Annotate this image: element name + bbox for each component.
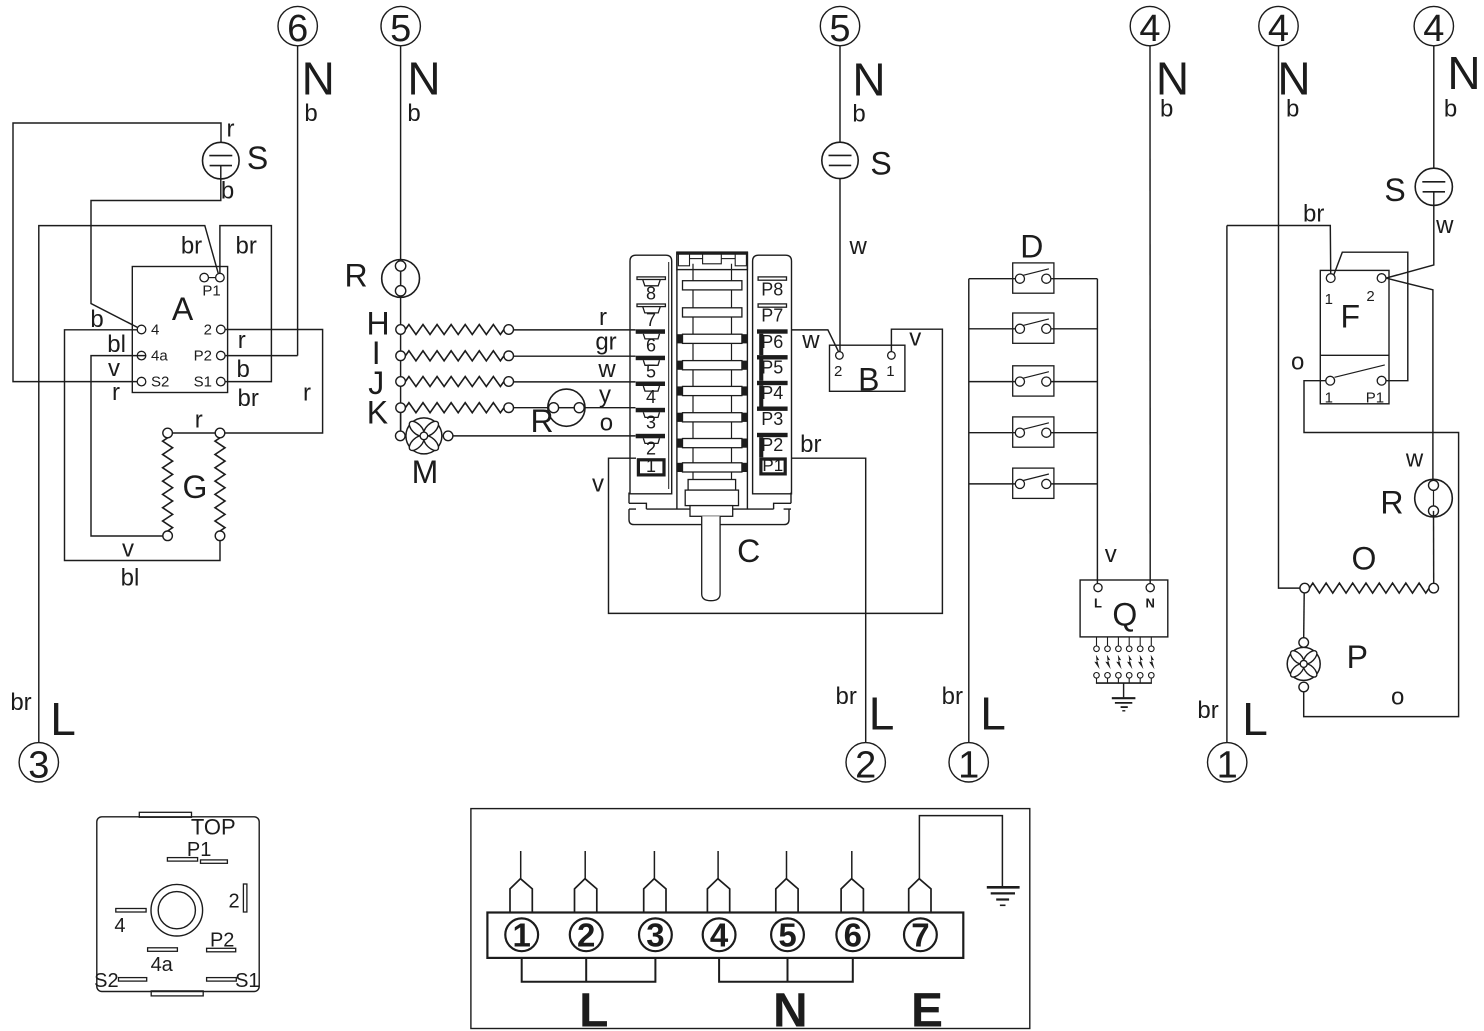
spade connector 7 xyxy=(909,879,931,913)
wire br: A pin S1 right, up and to P1 xyxy=(220,226,272,382)
svg-text:4: 4 xyxy=(646,387,656,407)
svg-text:b: b xyxy=(1286,96,1299,123)
switch C cam bar (engaged row) xyxy=(683,361,742,370)
svg-text:5: 5 xyxy=(646,361,656,381)
lamp S (right) xyxy=(1415,168,1452,205)
svg-text:4a: 4a xyxy=(151,954,174,976)
pin 4a of A xyxy=(137,351,146,360)
wire r: H to switch C contact 6 xyxy=(514,329,636,331)
svg-text:r: r xyxy=(112,379,120,406)
svg-text:L: L xyxy=(1242,693,1268,745)
wire b/w: node 5 through lamp S to B pin 2 xyxy=(839,46,841,156)
wire: switch to v bus xyxy=(1051,381,1098,383)
svg-text:4: 4 xyxy=(710,916,729,953)
svg-text:v: v xyxy=(592,471,604,498)
svg-text:P4: P4 xyxy=(761,383,783,403)
svg-text:O: O xyxy=(1351,540,1376,576)
lamp R (right) xyxy=(1415,479,1453,517)
svg-text:Q: Q xyxy=(1112,597,1137,633)
wire: F pin 1 loop to F pin P1 xyxy=(1334,252,1408,381)
svg-text:w: w xyxy=(849,233,868,260)
slot P1 left xyxy=(167,858,197,862)
svg-text:R: R xyxy=(1380,484,1403,520)
wire r: A pin S2 left and up to lamp S xyxy=(13,123,221,382)
clock/timer A (box) xyxy=(132,267,227,393)
svg-text:br: br xyxy=(800,431,821,458)
svg-text:5: 5 xyxy=(778,916,796,953)
svg-text:b: b xyxy=(852,101,865,128)
svg-text:P1: P1 xyxy=(1366,389,1384,406)
hotplate switch (bank D) xyxy=(1013,263,1054,293)
wire v: A pin 4a left, down to G left leg xyxy=(91,356,163,536)
slot 2 xyxy=(243,884,247,912)
svg-text:y: y xyxy=(599,382,611,409)
wire bl: A pin 4 left, down to grill element G right leg xyxy=(65,330,221,561)
pin N of Q xyxy=(1146,584,1154,592)
svg-text:r: r xyxy=(599,304,607,331)
fan motor M xyxy=(400,413,402,432)
svg-text:br: br xyxy=(10,689,31,716)
node 4 (supply terminal) xyxy=(1130,6,1169,45)
switch C - cam shaft column xyxy=(676,252,678,508)
timer connector rear view (TOP) xyxy=(97,817,259,992)
svg-text:v: v xyxy=(909,325,921,352)
svg-text:P7: P7 xyxy=(761,306,783,326)
svg-text:N: N xyxy=(773,985,808,1031)
wire o: F lower pin 1 loop to fan P bottom xyxy=(1304,381,1459,717)
node 1 (supply terminal) xyxy=(949,743,988,782)
svg-text:N: N xyxy=(852,54,885,106)
slot 4a xyxy=(148,948,178,952)
switch C cam bar row 8 xyxy=(683,281,742,290)
svg-text:b: b xyxy=(237,356,250,383)
svg-text:v: v xyxy=(122,536,134,563)
svg-text:1: 1 xyxy=(1325,291,1333,308)
wire w: switch C pin P6 to B pin 2 xyxy=(792,330,839,352)
slot P1 right xyxy=(201,860,228,863)
svg-text:L: L xyxy=(50,693,76,745)
wire: switch to v bus xyxy=(1051,483,1098,485)
bridge L: terminals 1-2-3 xyxy=(522,958,656,982)
svg-text:7: 7 xyxy=(646,310,656,330)
switch C shaft stem xyxy=(702,516,720,600)
svg-text:gr: gr xyxy=(595,329,616,356)
svg-text:E: E xyxy=(911,985,943,1031)
wire w: lamp S down to F pin 2 xyxy=(1386,192,1434,278)
lamp S (left signal lamp) xyxy=(203,142,240,179)
grill element G (two resistors) xyxy=(172,432,215,434)
svg-text:br: br xyxy=(836,683,857,710)
svg-text:br: br xyxy=(181,233,202,260)
wire y: K through lamp R to switch C contact 3 xyxy=(514,407,549,409)
svg-text:4a: 4a xyxy=(151,348,168,365)
pin P1 of A (two linked terminals) xyxy=(209,277,216,279)
node 2 (supply terminal) xyxy=(846,743,885,782)
svg-text:R: R xyxy=(344,257,367,293)
svg-text:TOP: TOP xyxy=(191,815,236,840)
pin 2 of F xyxy=(1377,274,1386,283)
svg-text:D: D xyxy=(1020,228,1043,264)
pin S1 of A xyxy=(217,377,226,386)
svg-text:L: L xyxy=(980,688,1006,740)
wire b: lamp S down-left to A pin 4 xyxy=(91,166,221,328)
switch C contact 7 (open) xyxy=(637,304,665,307)
wire w: F pin 2 down to lamp R xyxy=(1386,278,1433,480)
pin P2 of A xyxy=(217,351,226,360)
svg-text:P2: P2 xyxy=(194,348,212,365)
spade connector 3 xyxy=(653,851,655,879)
svg-text:L: L xyxy=(869,688,895,740)
node 4b (supply terminal) xyxy=(1259,6,1298,45)
svg-text:6: 6 xyxy=(646,336,656,356)
switch C cam bar (engaged row) xyxy=(683,413,742,422)
svg-text:w: w xyxy=(1405,446,1424,473)
oven selector switch C - left pin column xyxy=(630,255,672,494)
svg-text:r: r xyxy=(227,116,235,143)
svg-text:1: 1 xyxy=(646,456,656,476)
svg-text:2: 2 xyxy=(229,891,240,913)
svg-text:4: 4 xyxy=(1139,8,1160,50)
wire b: node 4 down to lamp S xyxy=(1433,46,1435,182)
svg-text:L: L xyxy=(1094,596,1102,611)
wire v: switch bank to Q terminal L xyxy=(1096,279,1098,584)
wire v: switch C pin 1 around block to B pin 1 xyxy=(609,329,943,613)
svg-text:S2: S2 xyxy=(94,970,118,992)
wire br: node 3 up and diagonal to A pin P1 xyxy=(39,226,219,743)
svg-text:S2: S2 xyxy=(151,374,169,391)
wire gr: I to switch C contact 5 xyxy=(514,355,636,357)
slot S2 xyxy=(119,978,147,982)
wire w: J to switch C contact 4 xyxy=(514,381,636,383)
svg-text:6: 6 xyxy=(844,916,862,953)
pin 1 of F xyxy=(1326,274,1335,283)
pin 4 of A xyxy=(137,325,146,334)
svg-text:br: br xyxy=(238,385,259,412)
spade connector 1 xyxy=(520,851,522,879)
svg-text:o: o xyxy=(1291,349,1304,376)
terminal 4 xyxy=(703,918,736,951)
switch C pin 1 (boxed) xyxy=(638,460,664,475)
svg-text:P3: P3 xyxy=(761,409,783,429)
oven lamp R xyxy=(382,260,420,298)
svg-text:v: v xyxy=(108,355,120,382)
switch C pin P7 xyxy=(758,304,786,307)
switch C pins P6/P5/P4 (engaged, black frames) xyxy=(757,329,788,333)
svg-text:2: 2 xyxy=(577,916,595,953)
svg-text:1: 1 xyxy=(886,363,894,380)
heating element K xyxy=(396,403,406,413)
heating element I xyxy=(396,351,406,361)
Q output terminals with surge arrows xyxy=(1096,637,1098,646)
switch lever in F xyxy=(1335,365,1385,377)
wire br: switch C pin P1 to node 2 xyxy=(792,458,866,742)
spade connector 4 xyxy=(717,851,719,879)
svg-text:2: 2 xyxy=(834,363,842,380)
switch C cam bar (engaged row) xyxy=(683,334,742,343)
switch C contact 6 (engaged) xyxy=(636,329,665,334)
wire b: node 5 down through lamp R to fan M xyxy=(400,46,402,261)
wire: switch to L bus xyxy=(969,483,1016,485)
hotplate switch (bank D) xyxy=(1013,417,1054,447)
svg-text:r: r xyxy=(303,380,311,407)
svg-text:2: 2 xyxy=(1366,288,1374,305)
svg-text:K: K xyxy=(367,395,388,431)
wire: terminal 7 to earth xyxy=(919,816,1002,886)
ground (earth symbol under Q) xyxy=(1112,697,1136,699)
svg-text:br: br xyxy=(1303,201,1324,228)
switch C contact 2 (engaged) xyxy=(636,434,665,439)
node 3 (supply terminal) xyxy=(19,743,58,782)
spade connector 2 xyxy=(584,851,586,879)
svg-text:S1: S1 xyxy=(194,374,212,391)
svg-text:P8: P8 xyxy=(761,280,783,300)
switch C pin P8 xyxy=(758,277,786,280)
wire: switch to v bus xyxy=(1051,432,1098,434)
heating element O xyxy=(1300,583,1310,593)
terminal strip xyxy=(487,913,963,958)
svg-text:G: G xyxy=(182,469,207,505)
switch C body flange xyxy=(628,493,630,504)
svg-text:1: 1 xyxy=(513,916,531,953)
terminal 7 xyxy=(904,918,937,951)
svg-text:3: 3 xyxy=(646,413,656,433)
switch C cam bar (engaged row) xyxy=(683,386,742,395)
switch C pin P1 (boxed) xyxy=(761,459,785,474)
svg-text:b: b xyxy=(304,100,317,127)
svg-text:B: B xyxy=(858,361,879,397)
switch C cam bar (engaged row) xyxy=(683,439,742,448)
pin 2 of A xyxy=(217,325,226,334)
slot P2 xyxy=(207,948,236,952)
pin L of Q xyxy=(1094,584,1102,592)
svg-text:1: 1 xyxy=(1217,744,1238,786)
interference suppressor Q (box) xyxy=(1080,580,1168,637)
svg-text:bl: bl xyxy=(107,331,126,358)
svg-text:P: P xyxy=(1347,639,1368,675)
svg-text:4: 4 xyxy=(1268,8,1289,50)
svg-text:bl: bl xyxy=(121,565,140,592)
svg-text:F: F xyxy=(1341,298,1361,334)
svg-text:br: br xyxy=(942,683,963,710)
svg-text:P1: P1 xyxy=(202,283,220,300)
svg-text:P2: P2 xyxy=(761,435,783,455)
wire: switch to L bus xyxy=(969,278,1016,280)
switch C contact 5 (engaged) xyxy=(636,356,665,361)
lamp S (middle) xyxy=(822,142,858,178)
svg-text:6: 6 xyxy=(287,8,308,50)
wire br: down to node 1b xyxy=(1226,226,1228,743)
switch C cam bar row 7 xyxy=(683,308,742,317)
pin 2 of B xyxy=(836,352,844,360)
wire r: A pin 2 right and down to G top xyxy=(225,330,323,434)
wire: switch to L bus xyxy=(969,432,1016,434)
node 1b (supply terminal) xyxy=(1208,743,1247,782)
svg-text:br: br xyxy=(1197,697,1218,724)
fan motor P xyxy=(1303,593,1306,638)
wire b: node 4 down to Q terminal N xyxy=(1149,46,1151,584)
node 5 (supply terminal) xyxy=(381,6,420,45)
heating element J xyxy=(396,377,406,387)
node 5b (supply terminal) xyxy=(820,6,859,45)
bridge N: terminals 4-5-6 xyxy=(719,958,853,982)
svg-text:S: S xyxy=(247,140,268,176)
svg-text:b: b xyxy=(90,306,103,333)
svg-text:1: 1 xyxy=(1325,389,1333,406)
wire: switch to L bus xyxy=(969,328,1016,330)
svg-text:br: br xyxy=(236,233,257,260)
wire: switch to v bus xyxy=(1051,278,1098,280)
spade connector 5 xyxy=(786,851,788,879)
svg-text:5: 5 xyxy=(829,8,850,50)
svg-text:N: N xyxy=(407,52,440,104)
svg-text:w: w xyxy=(1435,212,1454,239)
wire br: from L line to F pin 1 xyxy=(1227,226,1331,274)
svg-text:4: 4 xyxy=(151,322,159,339)
mains terminal block (outer box) xyxy=(471,809,1030,1029)
wire b: node 6 down to A pin P2 xyxy=(297,46,299,356)
switch C contact 4 (engaged) xyxy=(636,382,665,387)
svg-text:r: r xyxy=(238,327,246,354)
thermostat F (box with switch) xyxy=(1320,270,1389,403)
svg-text:M: M xyxy=(412,454,439,490)
svg-text:v: v xyxy=(1105,541,1117,568)
terminal 1 xyxy=(505,918,538,951)
wire: switch to v bus xyxy=(1051,328,1098,330)
pin S2 of A xyxy=(137,377,146,386)
wire o: M to switch C contact 2 xyxy=(453,435,636,437)
wire: switch to L bus xyxy=(969,381,1016,383)
switch C - right pin column xyxy=(753,255,792,494)
svg-text:P5: P5 xyxy=(761,358,783,378)
svg-text:8: 8 xyxy=(646,284,656,304)
svg-text:S: S xyxy=(1384,172,1405,208)
svg-text:R: R xyxy=(530,403,553,439)
svg-text:2: 2 xyxy=(204,322,212,339)
ground (earth symbol at terminal block) xyxy=(987,886,1020,889)
svg-text:o: o xyxy=(600,410,613,437)
terminal 5 xyxy=(771,918,804,951)
svg-text:b: b xyxy=(1160,96,1173,123)
svg-text:2: 2 xyxy=(855,744,876,786)
switch C shaft lower stack xyxy=(688,480,736,491)
svg-text:A: A xyxy=(172,291,194,327)
wire: Q terminals common to earth xyxy=(1096,682,1152,684)
svg-text:1: 1 xyxy=(958,744,979,786)
svg-text:N: N xyxy=(302,52,335,104)
svg-text:7: 7 xyxy=(911,916,929,953)
svg-text:4: 4 xyxy=(114,915,125,937)
thermostat B (box) xyxy=(830,345,905,391)
pin 1 of B xyxy=(888,352,896,360)
switch C pin P2 (engaged) xyxy=(757,433,788,437)
svg-text:4: 4 xyxy=(1423,8,1444,50)
node 6 (supply terminal) xyxy=(278,6,317,45)
terminal 3 xyxy=(639,918,672,951)
terminal 6 xyxy=(836,918,869,951)
svg-text:P1: P1 xyxy=(762,456,783,475)
svg-text:b: b xyxy=(221,178,234,205)
switch C cam bar (engaged row) xyxy=(683,463,742,472)
pin 1 (lower) of F xyxy=(1326,376,1335,385)
hotplate switch (bank D) xyxy=(1013,366,1054,396)
svg-text:N: N xyxy=(1146,596,1155,611)
terminal 2 xyxy=(570,918,603,951)
svg-text:5: 5 xyxy=(390,8,411,50)
slot S1 xyxy=(207,978,237,982)
oven lamp R (second) xyxy=(548,389,585,426)
wire: lamp R down to O right terminal xyxy=(1433,511,1435,583)
wire b: node 4 down to O left terminal xyxy=(1279,46,1300,588)
svg-text:o: o xyxy=(1391,684,1404,711)
svg-text:w: w xyxy=(597,356,616,383)
svg-text:S1: S1 xyxy=(235,970,259,992)
connector center hole xyxy=(151,884,203,936)
svg-text:S: S xyxy=(870,146,891,182)
slot 4 xyxy=(116,909,146,913)
hotplate switch (bank D) xyxy=(1013,468,1054,498)
svg-text:N: N xyxy=(1447,47,1480,99)
wire br: L bus down to node 1 xyxy=(968,279,970,743)
node 4c (supply terminal) xyxy=(1414,6,1453,45)
svg-text:3: 3 xyxy=(646,916,664,953)
switch C shaft top cap xyxy=(677,252,748,270)
svg-text:C: C xyxy=(737,533,760,569)
heating element H xyxy=(396,325,406,335)
switch C shaft inner xyxy=(692,264,694,480)
pin P1 of F xyxy=(1377,376,1386,385)
switch C contact 8 (open) xyxy=(637,277,665,280)
svg-text:w: w xyxy=(801,327,820,354)
svg-text:3: 3 xyxy=(28,744,49,786)
svg-text:L: L xyxy=(579,985,608,1031)
spade connector 6 xyxy=(851,851,853,879)
hotplate switch (bank D) xyxy=(1013,313,1054,343)
svg-text:b: b xyxy=(1444,96,1457,123)
switch C contact 3 (engaged) xyxy=(636,408,665,413)
svg-text:b: b xyxy=(407,100,420,127)
svg-text:P6: P6 xyxy=(761,332,783,352)
svg-text:r: r xyxy=(195,407,203,434)
